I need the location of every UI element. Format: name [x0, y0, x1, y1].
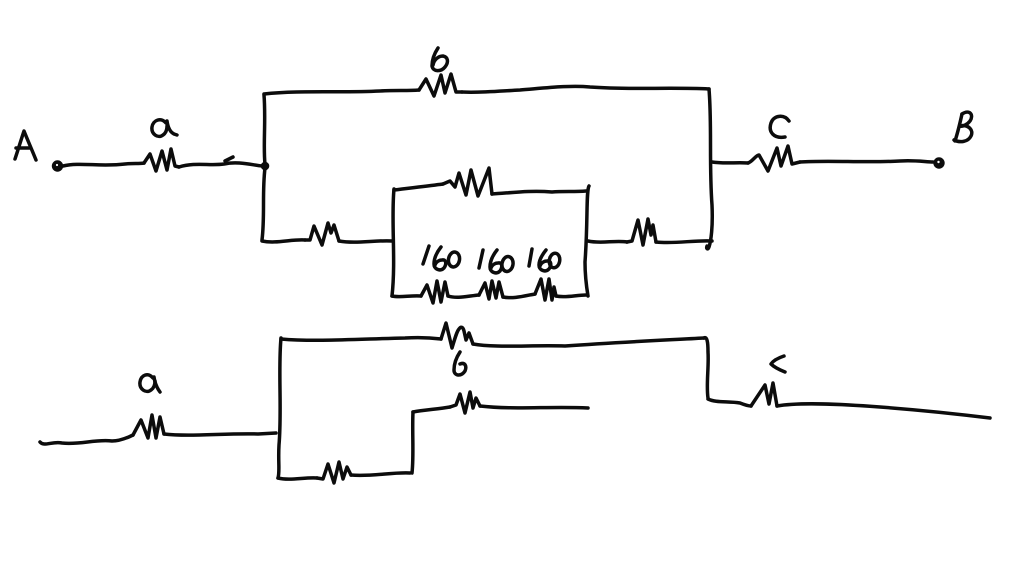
- wire resistor a to junction: [179, 163, 262, 167]
- wire to right vertical: [656, 241, 712, 243]
- resistor 160 no1: [421, 281, 448, 303]
- terminal node B: [933, 157, 944, 168]
- wire middle branch right: [480, 406, 588, 408]
- wire box bottom segment 4: [556, 295, 586, 297]
- wire to resistor c: [712, 162, 748, 163]
- resistor b: [419, 74, 462, 96]
- value label 160 no2: [479, 250, 514, 273]
- label c lower: [771, 356, 785, 372]
- value label 160 no3: [529, 249, 561, 271]
- resistor middle branch: [450, 392, 480, 413]
- dash mark: [225, 157, 233, 161]
- wire middle branch left: [413, 407, 450, 412]
- resistor c: [748, 146, 800, 171]
- wire lower lead-in: [40, 435, 133, 444]
- resistor a lower: [133, 415, 164, 438]
- label b: [432, 48, 447, 71]
- wire resistor c to node B: [800, 161, 933, 162]
- wire top rail left: [264, 90, 419, 94]
- wire bottom branch right: [351, 473, 410, 476]
- wire to parallel-left resistor: [262, 240, 305, 242]
- wire lower top rail right: [473, 338, 704, 346]
- wire junction up to top rail: [264, 95, 265, 164]
- resistor a: [144, 149, 179, 171]
- wire lower long tail: [777, 404, 990, 418]
- wire box right to parallel-right resistor: [588, 241, 627, 242]
- resistor parallel left: [305, 223, 339, 245]
- wire to box: [339, 241, 392, 242]
- wire to lower junction: [164, 433, 276, 435]
- node label B: [954, 112, 972, 142]
- wire right vertical: [707, 89, 713, 249]
- wire to resistor c lower: [708, 399, 751, 406]
- wire box bottom segment 1: [392, 294, 421, 298]
- resistor 160 no2: [479, 281, 503, 299]
- wire box left edge: [392, 189, 394, 296]
- resistor b lower: [441, 323, 473, 348]
- resistor parallel right: [627, 219, 656, 245]
- label C: [770, 116, 789, 137]
- label b lower: [454, 352, 466, 375]
- wire box bottom segment 3: [503, 294, 535, 298]
- wire A to resistor a: [63, 163, 144, 166]
- wire junction down: [262, 168, 265, 240]
- resistor c lower: [751, 383, 777, 406]
- wire box top right: [492, 191, 586, 194]
- wire box right edge: [585, 186, 589, 296]
- junction node: [261, 162, 270, 171]
- resistor bottom branch: [317, 462, 351, 483]
- terminal node A: [52, 160, 63, 171]
- wire lower top rail left: [281, 338, 441, 341]
- wire box top left: [394, 184, 443, 190]
- wire box bottom segment 2: [448, 295, 479, 297]
- resistor box top: [443, 168, 492, 196]
- wire riser: [412, 412, 413, 473]
- value label 160 no1: [423, 246, 461, 270]
- label a: [152, 120, 177, 137]
- wire lower right vertical: [704, 338, 708, 398]
- resistor 160 no3: [535, 279, 556, 300]
- label a lower: [140, 375, 160, 392]
- wire lower left vertical: [278, 338, 281, 478]
- wire top rail right: [462, 86, 709, 92]
- node label A: [15, 131, 36, 160]
- wire lower bottom branch left: [278, 478, 317, 479]
